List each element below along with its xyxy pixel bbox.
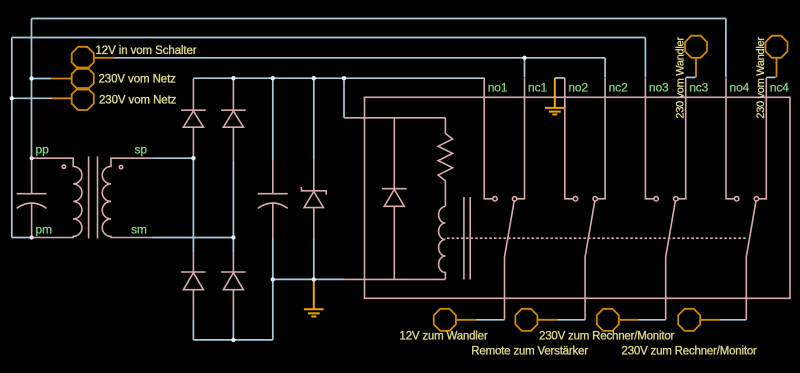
resistor coil series [438, 118, 452, 207]
wire sp net [151, 158, 193, 252]
svg-text:sm: sm [131, 223, 147, 237]
ground symbol at no2 [545, 78, 565, 115]
relay coil [439, 207, 446, 280]
relay contact no1 [484, 78, 497, 201]
relay lever 2 [585, 201, 595, 320]
transformer primary winding [32, 158, 82, 237]
wire to connector 230V Rechner 2 [720, 319, 747, 321]
relay lever 4 [746, 201, 756, 320]
svg-text:12V zum Wandler: 12V zum Wandler [400, 331, 488, 343]
diode bridge bottom-right [221, 252, 246, 320]
wire DC plus rail of bridge [193, 78, 484, 160]
diode bridge bottom-left [181, 252, 206, 320]
wire 12V feed to relay coil [344, 117, 445, 119]
svg-text:no4: no4 [730, 80, 750, 94]
capacitor filter electrolytic [258, 161, 288, 239]
svg-text:sp: sp [135, 143, 148, 157]
junction DC minus rail [231, 338, 235, 342]
node pm junction dot [30, 235, 34, 239]
svg-text:no1: no1 [488, 80, 508, 94]
svg-text:no2: no2 [568, 80, 588, 94]
svg-text:230 vom Wandler: 230 vom Wandler [675, 37, 687, 119]
svg-text:pm: pm [36, 223, 53, 237]
connector X8 230V Rechner 1 [597, 309, 638, 331]
transformer core [89, 157, 98, 239]
diode bridge top-left [181, 79, 206, 159]
wire to connector 12V zum Wandler [475, 319, 504, 321]
flyback diode [382, 118, 407, 280]
svg-text:230V vom Netz: 230V vom Netz [99, 73, 177, 85]
connector X7 Remote [515, 309, 556, 331]
wire net 12V from switch [114, 58, 605, 78]
junction DC plus at filter cap [271, 76, 275, 80]
wire ground net horizontal [273, 239, 344, 280]
wire DC minus bottom rail [193, 279, 272, 340]
relay core [464, 197, 470, 280]
svg-text:nc2: nc2 [609, 80, 628, 94]
svg-text:nc3: nc3 [689, 80, 708, 94]
svg-text:230 vom Wandler: 230 vom Wandler [755, 37, 767, 119]
relay contact no3 [645, 78, 658, 201]
junction 12V at nc1 [522, 56, 526, 60]
relay box outline [365, 97, 791, 298]
svg-text:no3: no3 [649, 80, 669, 94]
relay contact no4 [726, 78, 739, 201]
relay contact nc2 [593, 78, 605, 201]
relay mechanical link dashed [447, 237, 746, 239]
junction sm [231, 235, 235, 239]
svg-text:nc1: nc1 [528, 80, 547, 94]
wire to connector Remote [557, 319, 585, 321]
junction ground net at zener [312, 277, 316, 281]
junction DC plus at bridge right diode [231, 76, 235, 80]
junction ground net at cap [271, 277, 275, 281]
wire stub to connector X3 [12, 97, 52, 99]
junction 230V netz at X2 [29, 76, 33, 80]
wire elbow nc3 [686, 76, 696, 78]
junction DC plus at coil feed [342, 76, 346, 80]
connector X4 230 vom Wandler nc3 [685, 36, 707, 78]
ground symbol main [304, 279, 324, 316]
connector X3 230V Netz [52, 88, 94, 110]
relay contact nc3 [674, 78, 686, 201]
junction 230V netz at X3 [10, 96, 14, 100]
connector X5 230 vom Wandler nc4 [766, 36, 788, 78]
relay contact nc1 [512, 78, 524, 201]
wire pm net left [12, 237, 32, 239]
wire net A 230V top rail [32, 19, 726, 159]
connector X1 12V in [72, 47, 115, 69]
wire net B 230V second rail [12, 38, 646, 238]
relay lever 3 [666, 201, 676, 320]
transformer secondary winding [102, 158, 151, 237]
wire sm net [151, 162, 233, 253]
diode bridge top-right [221, 79, 246, 162]
junction DC plus at zener [312, 76, 316, 80]
relay contact nc4 [754, 78, 766, 201]
junction sp [191, 156, 195, 160]
svg-text:230V zum Rechner/Monitor: 230V zum Rechner/Monitor [539, 331, 675, 343]
relay lever 1 [505, 201, 515, 320]
wire stub to connector X2 [32, 78, 51, 80]
connector X2 230V Netz [51, 68, 94, 90]
svg-text:pp: pp [36, 143, 50, 157]
svg-text:12V in vom Schalter: 12V in vom Schalter [96, 45, 197, 57]
svg-text:nc4: nc4 [770, 80, 789, 94]
connector X9 230V Rechner 2 [678, 309, 720, 331]
connector X6 12V zum Wandler [434, 309, 475, 331]
wire coil return [344, 278, 445, 280]
svg-text:230V vom Netz: 230V vom Netz [99, 94, 177, 106]
wire to connector 230V Rechner 1 [638, 319, 666, 321]
zener diode [301, 159, 326, 239]
wire elbow ground at no2 [555, 77, 565, 79]
relay contact no2 [565, 78, 578, 201]
capacitor primary side [17, 158, 47, 237]
node pp junction dot [30, 156, 34, 160]
svg-text:Remote zum Verstärker: Remote zum Verstärker [471, 345, 588, 357]
svg-text:230V zum Rechner/Monitor: 230V zum Rechner/Monitor [622, 345, 758, 357]
wire elbow nc4 [766, 76, 775, 78]
